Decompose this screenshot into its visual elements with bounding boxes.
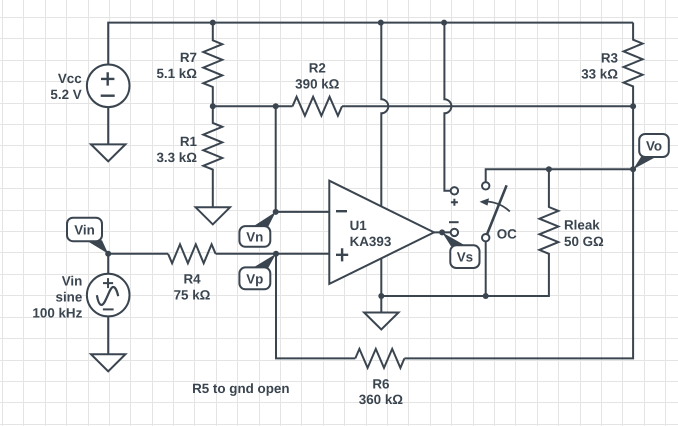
svg-text:KA393: KA393 — [350, 234, 392, 249]
resistor R7 — [156, 23, 222, 107]
svg-text:sine: sine — [56, 290, 83, 305]
svg-text:3.3 kΩ: 3.3 kΩ — [156, 150, 197, 165]
node Vp junction — [273, 251, 279, 257]
svg-text:Vin: Vin — [62, 274, 83, 289]
svg-text:Vin: Vin — [74, 222, 95, 237]
junction top rail / switch feed column — [441, 20, 447, 26]
resistor R1 — [156, 106, 222, 207]
wire op-amp power column (hop over mid rail) — [381, 23, 388, 296]
svg-text:Vp: Vp — [246, 271, 263, 286]
wire bottom rail (op-amp gnd to Rleak) — [381, 254, 549, 296]
node Vo callout — [633, 134, 669, 169]
junction mid rail / R3 bottom — [630, 103, 636, 109]
junction bottom rail / op-amp ground — [378, 293, 384, 299]
node Vo junction — [630, 166, 636, 172]
wire OC column down — [485, 241, 487, 296]
junction mid rail / Vn column — [273, 103, 279, 109]
svg-text:Vs: Vs — [457, 250, 473, 265]
junction bottom rail / OC column — [483, 293, 489, 299]
ground (Vcc) — [91, 144, 125, 161]
resistor R2 — [293, 60, 343, 115]
svg-text:5.2 V: 5.2 V — [50, 87, 81, 102]
svg-text:R6: R6 — [372, 376, 389, 391]
node Vs callout — [442, 232, 479, 268]
svg-text:R7: R7 — [180, 50, 197, 65]
resistor Rleak — [539, 169, 604, 254]
junction top rail / op-amp power column — [378, 20, 384, 26]
svg-text:Vcc: Vcc — [58, 71, 82, 86]
op-amp U1 — [329, 181, 434, 284]
ground (R1) — [196, 207, 230, 224]
svg-text:U1: U1 — [350, 218, 368, 233]
ground (op-amp) — [364, 313, 398, 330]
junction mid rail / R7-R1 — [210, 103, 216, 109]
source Vin sine — [32, 274, 129, 321]
wire op-amp output — [434, 231, 451, 233]
svg-text:100 kHz: 100 kHz — [32, 306, 82, 321]
wire Vo line (switch top to right rail) — [486, 169, 633, 186]
svg-text:360 kΩ: 360 kΩ — [359, 392, 404, 407]
svg-text:R1: R1 — [180, 134, 198, 149]
svg-text:390 kΩ: 390 kΩ — [295, 76, 340, 91]
wire Vn to op-amp minus input — [276, 211, 330, 213]
wire Vp column to R6 — [276, 254, 355, 359]
svg-text:R4: R4 — [183, 272, 201, 287]
wire top rail — [108, 23, 633, 65]
node Vs junction (op-amp output) — [439, 229, 445, 235]
wire Vin node to op-amp plus input — [108, 253, 329, 255]
node Vin junction — [105, 251, 111, 257]
switch OC — [449, 182, 517, 241]
svg-text:R2: R2 — [309, 60, 326, 75]
svg-text:75 kΩ: 75 kΩ — [174, 288, 211, 303]
svg-text:R5 to gnd open: R5 to gnd open — [192, 381, 289, 396]
svg-text:5.1 kΩ: 5.1 kΩ — [156, 66, 197, 81]
wire Vn column — [275, 106, 277, 212]
voltage source Vcc — [50, 65, 129, 108]
svg-text:OC: OC — [497, 227, 517, 242]
svg-text:R3: R3 — [601, 51, 618, 66]
resistor R6 — [355, 349, 404, 407]
wire op-amp ground stem — [380, 296, 382, 313]
svg-text:33 kΩ: 33 kΩ — [581, 67, 618, 82]
node Vp callout — [239, 254, 276, 289]
svg-text:50 GΩ: 50 GΩ — [564, 234, 604, 249]
wire switch feed column (hop over mid rail) — [444, 23, 451, 191]
junction Vo wire / Rleak top — [546, 166, 552, 172]
junction top rail / R7 — [210, 20, 216, 26]
wire Vin node down to source — [107, 254, 109, 274]
node Vn junction — [273, 209, 279, 215]
node Vn callout — [239, 212, 275, 247]
wire Vcc to ground — [107, 107, 109, 144]
svg-text:Vn: Vn — [246, 229, 263, 244]
svg-text:Vo: Vo — [646, 138, 662, 153]
resistor R3 — [581, 23, 642, 107]
ground (Vin source) — [91, 354, 125, 371]
svg-text:Rleak: Rleak — [564, 218, 600, 233]
resistor R4 — [168, 244, 216, 302]
wire source to ground — [107, 316, 109, 354]
wire mid rail — [213, 105, 633, 107]
node Vin callout — [67, 218, 108, 254]
wire right rail (R3 bottom to R6 corner) — [404, 106, 633, 358]
